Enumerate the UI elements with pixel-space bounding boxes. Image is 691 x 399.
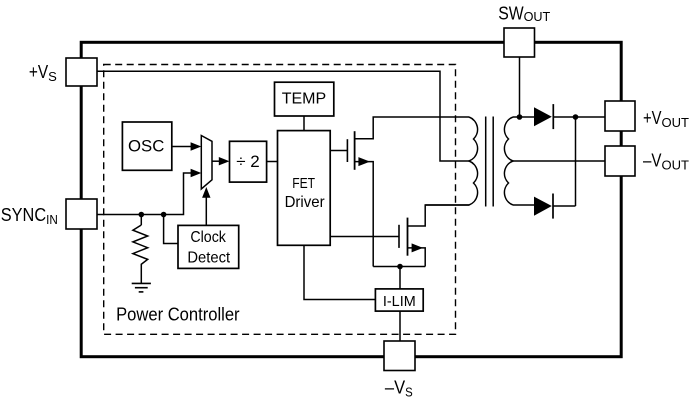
wire D2 cathode to vertical <box>553 205 576 207</box>
Q1 source arrow <box>358 157 370 166</box>
pin -VS <box>384 341 415 371</box>
junction dot source rail / I-LIM <box>397 264 403 270</box>
wire clock-detect input branch <box>164 215 178 244</box>
pin +V_OUT <box>605 101 635 131</box>
transistor Q1 top FET <box>347 117 469 267</box>
wire mux output <box>212 160 219 162</box>
wire FET driver to bottom gate <box>330 236 399 238</box>
Q2 source arrow <box>412 243 423 252</box>
block OSC <box>122 122 171 170</box>
svg-text:OSC: OSC <box>128 137 164 156</box>
diode D2 bottom <box>534 194 553 219</box>
svg-text:÷ 2: ÷ 2 <box>236 152 260 171</box>
pin +VS <box>66 58 97 86</box>
wire SYNC net: pin to mux input riser <box>97 173 191 215</box>
svg-text:Detect: Detect <box>187 250 230 267</box>
svg-text:FET: FET <box>292 176 315 192</box>
junction dot SYNC/clock-detect <box>161 212 167 218</box>
transformer core <box>485 117 487 207</box>
transistor Q2 bottom FET <box>399 205 469 267</box>
wire OSC output <box>172 146 191 148</box>
arrowhead OSC into mux <box>191 142 202 150</box>
wire source rail to I-LIM top <box>399 267 401 289</box>
block divide-by-2 <box>230 141 267 182</box>
Q1 channel bar <box>354 131 356 170</box>
arrowhead mux into divider <box>219 157 230 165</box>
block Clock Detect <box>178 225 239 268</box>
diode D1 top <box>534 104 553 129</box>
wire secondary top lead to diode D1 anode <box>513 116 534 118</box>
Q2 source wire <box>408 248 426 267</box>
wire secondary bottom lead to diode D2 anode <box>513 204 534 206</box>
wire rectifier output vertical <box>575 117 577 206</box>
wire secondary center tap to -VOUT pin <box>513 160 605 162</box>
Q2 channel bar <box>407 218 409 256</box>
transformer T1 secondary winding <box>504 117 513 205</box>
wire D1 cathode to +VOUT <box>553 116 605 118</box>
wire common source rail <box>373 266 425 268</box>
svg-text:Driver: Driver <box>285 194 326 211</box>
pin SYNC_IN <box>66 199 97 229</box>
wire FET driver to I-LIM <box>304 245 375 299</box>
wire I-LIM to -VS pin <box>399 311 401 341</box>
junction dot SW_OUT / secondary top <box>517 114 523 120</box>
outer device boundary box <box>81 42 621 356</box>
wire resistor top stub <box>140 215 142 226</box>
mux U1 <box>201 136 212 190</box>
junction dot rectifier output <box>573 114 579 120</box>
Q1 source wire down <box>355 162 374 267</box>
junction dot SYNC/resistor <box>139 212 145 218</box>
Q1 drain wire to primary top <box>355 117 469 139</box>
pin -V_OUT <box>605 146 635 176</box>
resistor R1 zigzag <box>133 225 148 283</box>
arrowhead SYNC into mux <box>191 169 202 177</box>
wire SW_OUT pin down to secondary top <box>519 57 521 117</box>
wire clock-detect to mux select <box>205 197 207 225</box>
transformer T1 primary winding <box>425 117 477 205</box>
block FET Driver <box>278 131 331 246</box>
arrowhead into mux select <box>202 187 210 198</box>
dashed power controller boundary <box>104 65 456 335</box>
Q2 gate bar <box>398 225 400 248</box>
wire +VS net: pin to transformer primary center tap <box>97 71 469 161</box>
block I-LIM <box>375 289 423 311</box>
pin SW_OUT <box>504 28 535 57</box>
wire FET driver to top gate <box>330 150 347 152</box>
svg-text:Power Controller: Power Controller <box>116 305 240 325</box>
wire divider to FET driver <box>267 161 278 163</box>
svg-text:I-LIM: I-LIM <box>383 293 416 310</box>
Q2 drain wire to primary bottom <box>408 205 470 226</box>
wire TEMP to FET driver <box>303 116 305 131</box>
Q1 gate bar <box>346 139 348 162</box>
ground symbol <box>132 283 151 292</box>
block TEMP <box>275 82 334 116</box>
svg-text:TEMP: TEMP <box>282 90 327 107</box>
svg-text:Clock: Clock <box>190 229 226 246</box>
